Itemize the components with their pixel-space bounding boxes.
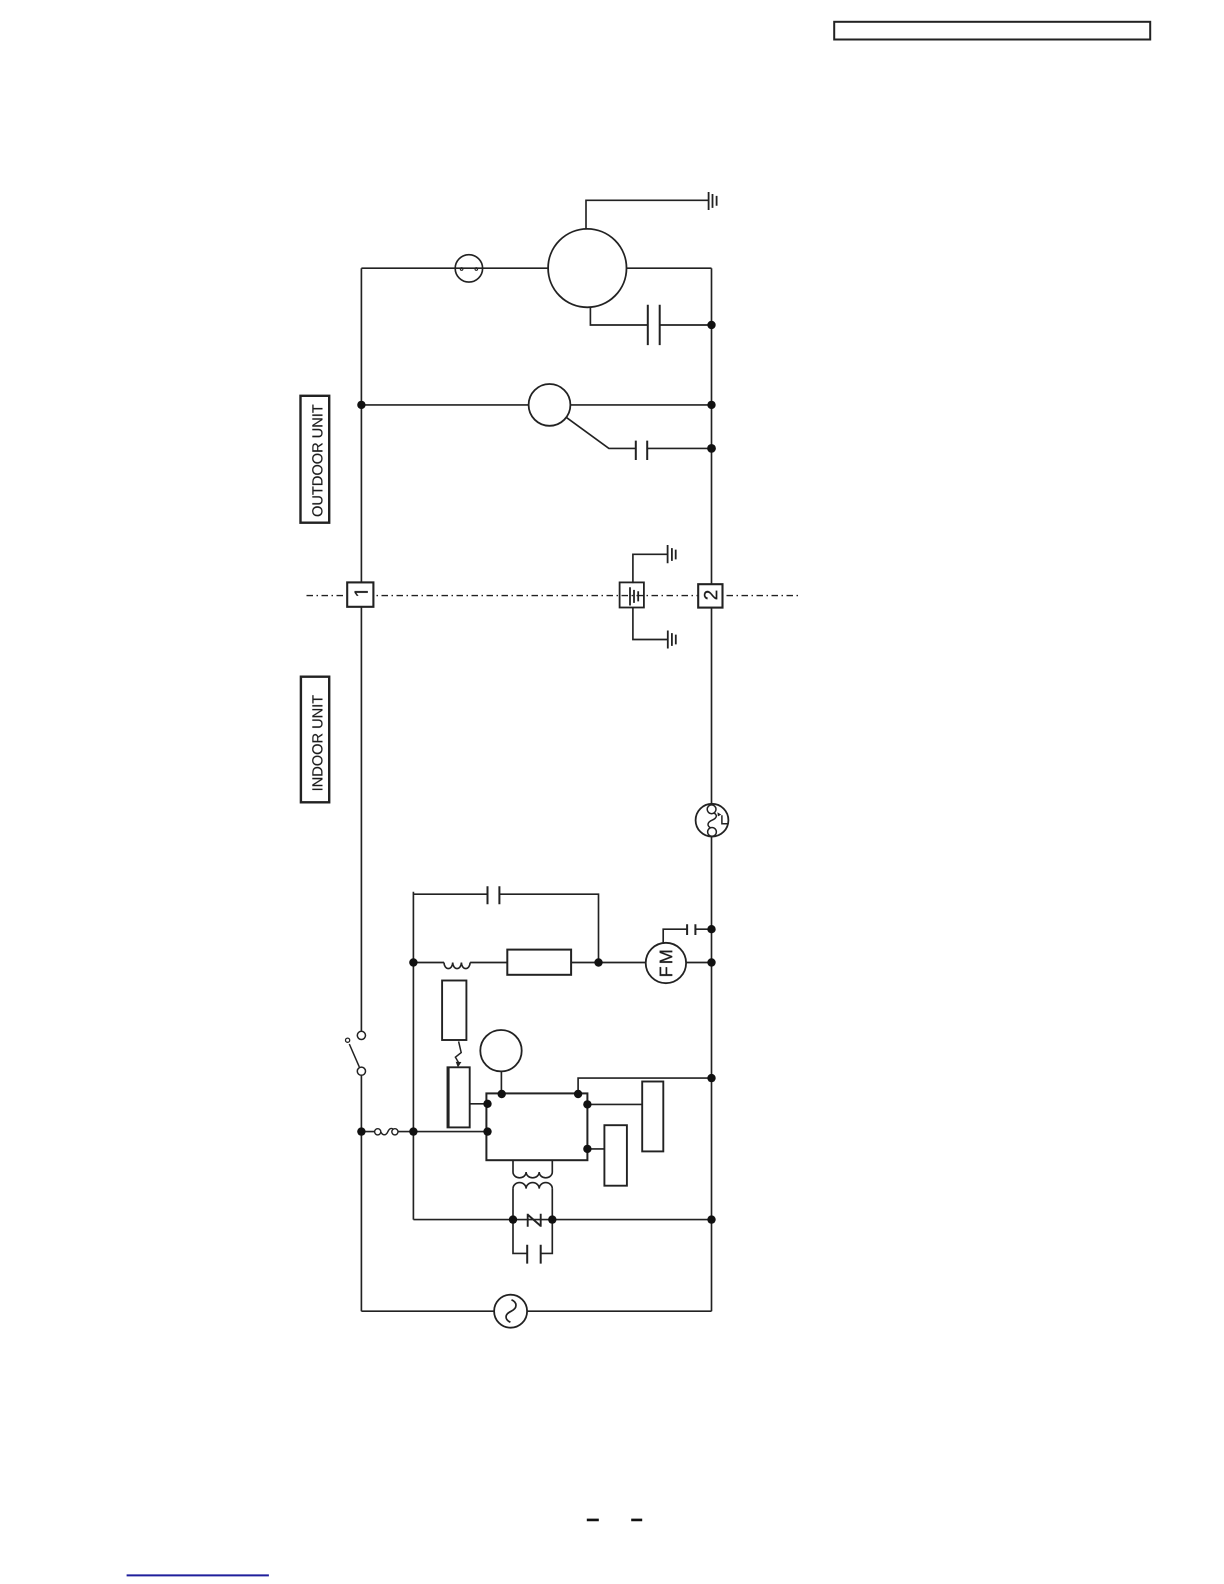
node junction capacitor branch / indoor fan row bbox=[594, 958, 602, 966]
discharge zigzag arrow bbox=[455, 1041, 461, 1062]
component box right tall bbox=[642, 1082, 663, 1152]
node junction line2 / outdoor fan capacitor bbox=[707, 444, 716, 453]
ground top (compressor earth) bbox=[709, 192, 717, 210]
component box right lower bbox=[604, 1125, 627, 1186]
label terminal 1 bbox=[355, 591, 368, 596]
power relay coil circle bbox=[480, 1030, 521, 1071]
wire compressor bottom to run capacitor bbox=[590, 307, 711, 325]
wire varistor box to control board left bbox=[470, 1103, 488, 1105]
wire fuse row bbox=[361, 1131, 486, 1133]
node junction board top right bbox=[574, 1090, 582, 1098]
terminal 1 box bbox=[347, 582, 373, 606]
transformer secondary winding bbox=[513, 1183, 552, 1189]
wire left vertical bus (line 1) bbox=[360, 268, 362, 1311]
node junction secondary left bbox=[509, 1215, 517, 1223]
label FM bbox=[660, 951, 673, 976]
wire secondary to capacitor bbox=[513, 1220, 552, 1254]
node junction board top left bbox=[498, 1090, 506, 1098]
node junction line2 / compressor capacitor bbox=[707, 321, 715, 329]
node junction line2 / secondary row bbox=[707, 1215, 715, 1223]
label INDOOR UNIT bbox=[312, 695, 322, 790]
footer blue line bbox=[127, 1574, 269, 1576]
title block box top right bbox=[834, 22, 1150, 40]
ground upper middle bbox=[668, 545, 676, 563]
wire outdoor fan motor row bbox=[361, 404, 711, 406]
varistor box lower left bbox=[448, 1067, 470, 1127]
terminal 2 box bbox=[698, 584, 722, 607]
node junction branch line / indoor fan row bbox=[409, 958, 417, 966]
label OUTDOOR UNIT bbox=[312, 405, 322, 517]
node junction board left lower bbox=[483, 1127, 491, 1135]
node junction line2 / indoor fan row bbox=[707, 958, 715, 966]
wire indoor capacitor branch bbox=[413, 892, 598, 1220]
ground lower middle bbox=[668, 631, 676, 649]
resistor box bbox=[507, 950, 571, 975]
capacitor C2 outdoor fan bbox=[636, 441, 647, 460]
transformer primary winding bbox=[513, 1160, 552, 1178]
node junction board right lower bbox=[583, 1145, 591, 1153]
capacitor C4 indoor fan motor bbox=[687, 924, 695, 935]
wire arrester to lower earth bbox=[633, 608, 668, 640]
capacitor C1 compressor run bbox=[648, 305, 660, 345]
page number dashes bbox=[587, 1519, 642, 1522]
boundary dash-dot line between indoor and outdoor unit bbox=[307, 595, 801, 597]
capacitor C3 indoor branch bbox=[488, 886, 500, 904]
label terminal 2 bbox=[704, 591, 717, 600]
wire compressor top to earth bbox=[586, 200, 709, 229]
power switch bbox=[357, 1031, 365, 1039]
capacitor C5 transformer secondary bbox=[527, 1245, 541, 1264]
node junction line1 / fuse row bbox=[357, 1127, 365, 1135]
wire arrester to upper earth bbox=[633, 554, 667, 583]
OUTDOOR UNIT label box bbox=[301, 396, 330, 523]
resistor box R upper left bbox=[442, 981, 466, 1041]
wire FM motor capacitor branch bbox=[663, 929, 711, 943]
node junction line2 / outdoor fan row bbox=[707, 401, 715, 409]
wire bottom power row bbox=[361, 1310, 711, 1312]
fuse bbox=[375, 1129, 381, 1135]
indoor fan motor FM circle bbox=[646, 943, 686, 983]
overload protector circle bbox=[455, 255, 482, 282]
node junction line2 / FM capacitor bbox=[707, 925, 715, 933]
wire right vertical bus (line 2) bbox=[711, 268, 713, 1311]
wire control board top right to line 2 bbox=[578, 1078, 711, 1094]
control board box bbox=[486, 1093, 587, 1160]
surge arrester box bbox=[620, 582, 644, 607]
node junction board right upper bbox=[583, 1100, 591, 1108]
wire fan motor aux winding to capacitor bbox=[566, 417, 711, 448]
AC power source circle bbox=[494, 1295, 527, 1328]
node junction branch line / fuse row bbox=[409, 1127, 417, 1135]
INDOOR UNIT label box bbox=[301, 677, 329, 803]
wire top row to compressor bbox=[361, 267, 711, 269]
node junction line1 / outdoor fan row bbox=[357, 401, 365, 409]
node junction line2 / control board wire bbox=[707, 1074, 715, 1082]
thermal fuse N symbol bbox=[528, 1214, 541, 1227]
wire indoor fan motor row bbox=[413, 962, 711, 964]
node junction secondary right bbox=[548, 1215, 556, 1223]
compressor motor circle bbox=[548, 229, 626, 307]
node junction board left upper bbox=[483, 1100, 491, 1108]
wire control board right to component boxes bbox=[587, 1104, 642, 1149]
inductor coil bbox=[444, 963, 470, 969]
wire relay coil to control board bbox=[500, 1071, 502, 1094]
thermostat circle bbox=[696, 804, 729, 837]
outdoor fan motor circle bbox=[529, 384, 571, 426]
wire transformer secondary row bbox=[413, 1219, 711, 1221]
